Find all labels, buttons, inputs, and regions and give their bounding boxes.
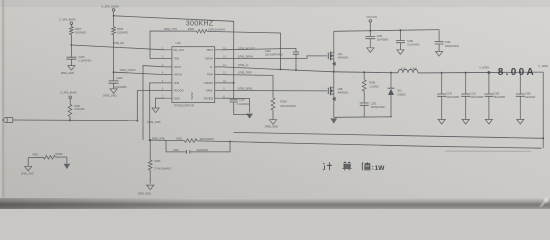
wire net 1P0E_DRVL — [222, 87, 327, 91]
svg-text:VFB: VFB — [174, 81, 179, 85]
ground (under C312) — [462, 119, 469, 124]
capacitor C263 0.1uF/0402 — [66, 45, 92, 66]
svg-text:10uF/0805: 10uF/0805 — [377, 39, 389, 42]
wire output rail V_1P0E — [418, 71, 543, 74]
power flag V_3P3_MAIN — [59, 18, 76, 27]
wire VFB sense to output — [197, 141, 542, 149]
svg-text:C282: C282 — [407, 40, 413, 43]
svg-text:300KHZ: 300KHZ — [186, 18, 214, 27]
svg-text:10K/0402: 10K/0402 — [74, 108, 85, 111]
wire net 1P0E_EN — [70, 41, 164, 50]
wire PGOOD net — [13, 119, 138, 121]
svg-text:220uF/0805: 220uF/0805 — [446, 96, 459, 99]
svg-text:D23: D23 — [397, 90, 402, 93]
wire LL node to inductor — [334, 71, 398, 73]
wire PGND pin8 — [222, 98, 250, 112]
wire GND pin7 — [156, 98, 165, 108]
resistor R396 200K/1%/0402 — [188, 27, 226, 33]
svg-text:PGOOD: PGOOD — [174, 89, 184, 93]
ground (PGND, solid) — [246, 114, 253, 119]
resistor R308 2.2/0402 (snubber) — [362, 72, 379, 103]
svg-text:1P0E_LL: 1P0E_LL — [238, 63, 249, 67]
ground (under C282) — [397, 50, 404, 55]
svg-text:0.1uF/0402: 0.1uF/0402 — [237, 103, 250, 106]
svg-text:1P0E_TON: 1P0E_TON — [164, 27, 177, 31]
svg-text:1P0E_GND: 1P0E_GND — [61, 71, 75, 75]
svg-text:0.1uF/0402: 0.1uF/0402 — [78, 59, 92, 63]
svg-text:R307: R307 — [75, 27, 82, 31]
svg-text:V_3P3_MAIN: V_3P3_MAIN — [60, 91, 77, 95]
left photo edge shadow — [0, 0, 4, 197]
svg-text:GND: GND — [174, 96, 180, 100]
svg-text:8.00A: 8.00A — [498, 67, 536, 78]
wire V_3P0_ALWS rail — [114, 16, 234, 99]
svg-text:C281: C281 — [377, 35, 383, 38]
capacitor C284 1000pF/0402 — [435, 30, 460, 51]
wire Q4A source / Q4B drain (LL node) — [332, 59, 336, 88]
svg-text:10K/1%/0402: 10K/1%/0402 — [200, 138, 215, 141]
svg-text:220uF/0805: 220uF/0805 — [470, 96, 483, 99]
ground (R362 right, solid) — [64, 157, 71, 169]
svg-text:1P0E_GND: 1P0E_GND — [265, 124, 279, 128]
svg-text:DRVL: DRVL — [206, 89, 214, 93]
ground 1P0E_GND (under R363) — [138, 185, 154, 196]
resistor R359 20K/1%/0402 — [271, 98, 296, 120]
ground 1P0E_GND (under C263) — [61, 66, 76, 75]
svg-text:200K/1%/0402: 200K/1%/0402 — [208, 27, 226, 31]
svg-text:10K/0402: 10K/0402 — [75, 30, 87, 34]
wire VFB pin5 — [150, 83, 165, 140]
svg-text:220-330PF/0402: 220-330PF/0402 — [265, 54, 283, 57]
svg-text:0.1uF/0402: 0.1uF/0402 — [407, 44, 420, 47]
wire net 1P0E_VFB — [149, 136, 185, 141]
svg-text:1P0E_TRIP: 1P0E_TRIP — [238, 71, 252, 75]
svg-text:1N5819: 1N5819 — [397, 94, 406, 97]
capacitor C246 220-330PF/0402 (bootstrap) — [265, 48, 299, 71]
ground (under C280) — [517, 119, 524, 124]
svg-text:22pF/0402: 22pF/0402 — [197, 149, 209, 152]
svg-text:1P0E_DRVH: 1P0E_DRVH — [238, 55, 253, 59]
wire power ground rail — [334, 116, 392, 119]
wire Q4A drain to 12V rail — [333, 31, 335, 53]
svg-text:C312: C312 — [470, 93, 476, 96]
svg-text:Q4A: Q4A — [338, 53, 343, 56]
svg-text:VSDRV: VSDRV — [204, 81, 213, 85]
svg-text:C280: C280 — [525, 93, 531, 96]
svg-text:1uF/0402: 1uF/0402 — [525, 96, 536, 99]
svg-text:20K/1%/0402: 20K/1%/0402 — [280, 104, 296, 108]
wire net 1P0E_VSFILT — [114, 68, 165, 74]
wire VCC12V rail — [334, 30, 439, 32]
svg-text:1P0E_BOOST: 1P0E_BOOST — [238, 47, 255, 51]
svg-text:R362: R362 — [33, 153, 39, 156]
svg-text:1000pF/0402: 1000pF/0402 — [445, 45, 460, 48]
transistor Q4B AM4910N — [328, 87, 348, 96]
svg-text:1.0uH: 1.0uH — [410, 67, 417, 70]
wire sense line A — [234, 132, 544, 138]
svg-text:U40: U40 — [176, 41, 182, 45]
svg-text:V_3P3_MAIN: V_3P3_MAIN — [59, 18, 76, 22]
wire PGOOD pin6 — [136, 91, 165, 122]
capacitor C291 1000pF/0402 (snubber) — [360, 102, 386, 117]
svg-text:C266: C266 — [116, 76, 123, 80]
power flag V_3P3_MAIN (lower) — [60, 91, 77, 105]
wire VSDRV pin10 — [222, 82, 235, 84]
capacitor C312 220uF/0805 — [461, 73, 484, 120]
svg-text:TPS51117RGYR: TPS51117RGYR — [174, 103, 194, 107]
svg-text:R359: R359 — [280, 100, 287, 104]
op-amp/controller U40 TPS51117RGYR — [162, 41, 227, 108]
svg-text:R308: R308 — [369, 82, 375, 85]
svg-text:R363: R363 — [155, 160, 161, 163]
wire net 1P0E_LL — [222, 63, 334, 72]
svg-text:1P0E_GND: 1P0E_GND — [138, 192, 152, 196]
ground 1P0E_GND (under C266) — [103, 89, 117, 98]
resistor R362 0/0402 — [28, 153, 67, 159]
capacitor C276 220uF/0805 — [437, 73, 460, 120]
capacitor C292 0.1uF/0402 — [230, 98, 250, 114]
resistor R305 100/0402 — [112, 16, 129, 73]
resistor R363 27.4K/1%/0402 — [148, 139, 171, 183]
svg-text:PGND: PGND — [191, 92, 194, 99]
wire output sense drop — [542, 72, 544, 148]
svg-text:LL: LL — [210, 65, 213, 69]
ground (under C284) — [436, 52, 443, 57]
transistor Q4A AM4910N — [328, 52, 348, 61]
svg-text:1W: 1W — [375, 165, 386, 172]
svg-text:C284: C284 — [445, 41, 451, 44]
svg-text:C289: C289 — [494, 93, 500, 96]
svg-text:C292: C292 — [239, 98, 245, 101]
svg-text:C276: C276 — [446, 93, 452, 96]
ground (under C281) — [367, 48, 374, 53]
capacitor C289 15uF/0805 — [484, 73, 505, 120]
test point V_1P0E1 — [479, 67, 490, 74]
svg-text:R305: R305 — [117, 27, 124, 31]
svg-text:1P0E_GND: 1P0E_GND — [147, 120, 161, 124]
power flag V_3P0_ALWS — [101, 4, 119, 16]
capacitor C280 1uF/0402 — [516, 73, 536, 120]
svg-text:VCC12V: VCC12V — [367, 15, 378, 19]
wire Q4B source to ground — [332, 94, 336, 117]
svg-text:L34: L34 — [402, 67, 407, 70]
svg-text:2.2/0402: 2.2/0402 — [369, 86, 379, 89]
svg-text:VSFILT: VSFILT — [174, 73, 183, 77]
svg-text:1000pF/0402: 1000pF/0402 — [371, 106, 386, 109]
svg-text:VOUT: VOUT — [174, 65, 182, 69]
capacitor C266 10uF/0805 — [109, 72, 127, 89]
svg-text:C291: C291 — [371, 102, 377, 105]
capacitor C281 10uF/0805 — [365, 31, 388, 48]
svg-text:1P0E_GND: 1P0E_GND — [103, 94, 117, 98]
power flag VCC12V — [367, 15, 378, 31]
svg-text:V_1P0E: V_1P0E — [538, 64, 548, 68]
ground (Q4B source, solid) — [330, 118, 337, 123]
wire net 1P0E_BOOST — [222, 47, 296, 51]
wire TON to LL — [207, 31, 282, 70]
svg-text:EN_FSV: EN_FSV — [174, 48, 185, 52]
svg-text:1P0E_GND: 1P0E_GND — [21, 173, 34, 176]
svg-text:100/0402: 100/0402 — [117, 31, 128, 35]
capacitor C282 0.1uF/0402 — [396, 29, 420, 49]
svg-text:Q4B: Q4B — [338, 88, 343, 91]
svg-text:0/0402: 0/0402 — [55, 153, 63, 156]
ground 1P0E_GND (under R359) — [265, 120, 279, 129]
wire net 1P0E_TON — [150, 27, 197, 59]
resistor R307 10K/0402 — [70, 27, 87, 45]
inductor L34 1.0uH — [398, 67, 418, 72]
diode D23 1N5819 — [388, 73, 407, 117]
label (calculated value) — [323, 162, 373, 170]
wire net 1P0E_TRIP — [222, 71, 273, 98]
ground (under C289) — [485, 119, 492, 124]
svg-text:V_1P0E1: V_1P0E1 — [479, 67, 490, 70]
svg-text:V_3P0_ALWS: V_3P0_ALWS — [101, 4, 119, 8]
ground (under C276) — [438, 119, 445, 124]
resistor R381 10K/1%/0402 — [177, 138, 215, 143]
svg-text:DRVH: DRVH — [205, 57, 213, 61]
svg-text:1P0E_EN: 1P0E_EN — [113, 41, 125, 45]
svg-text:VBST: VBST — [206, 48, 213, 52]
wire net 1P0E_DRVH — [222, 55, 327, 59]
svg-text:PGND5: PGND5 — [204, 96, 214, 100]
svg-text:15uF/0805: 15uF/0805 — [494, 96, 506, 99]
svg-text:R381: R381 — [177, 138, 183, 141]
svg-text:C263: C263 — [78, 55, 85, 59]
cursor mark — [541, 199, 548, 207]
svg-text:TRIP: TRIP — [207, 73, 213, 77]
svg-text:1P0E_VSFILT: 1P0E_VSFILT — [120, 68, 137, 72]
capacitor C260 22pF/0402 — [166, 140, 230, 153]
ground 1P0E_GND (IC GND pin) — [147, 108, 161, 124]
svg-text:AM4910N: AM4910N — [338, 92, 349, 95]
svg-text:C260: C260 — [173, 149, 179, 152]
off-page connector (output sense) — [3, 118, 13, 123]
ground 1P0E_GND (R362 left) — [21, 158, 34, 176]
svg-text:1P0E_VFB: 1P0E_VFB — [152, 136, 165, 140]
svg-text:AM4910N: AM4910N — [338, 57, 349, 60]
wire VOUT pin3 to feedback — [143, 66, 165, 140]
shadow smudge — [445, 150, 531, 153]
svg-text:R396: R396 — [188, 27, 195, 31]
resistor R360 10K/0402 — [68, 104, 85, 120]
svg-text:TON: TON — [174, 57, 180, 61]
svg-text:1P0E_DRVL: 1P0E_DRVL — [238, 87, 253, 91]
svg-text:27.4K/1%/0402: 27.4K/1%/0402 — [155, 168, 172, 171]
